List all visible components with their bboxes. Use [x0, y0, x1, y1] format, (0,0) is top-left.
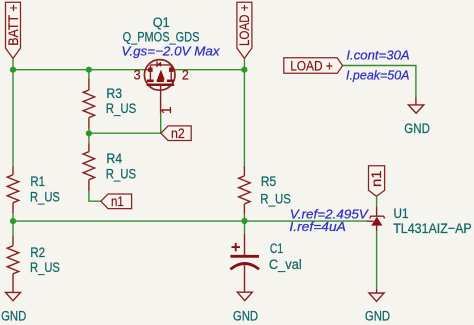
- capacitor C1: [230, 221, 259, 293]
- svg-text:1: 1: [159, 106, 175, 114]
- svg-text:3: 3: [134, 68, 141, 84]
- svg-text:R4: R4: [106, 151, 122, 167]
- net label n2: [161, 126, 191, 142]
- svg-text:n1: n1: [369, 170, 385, 187]
- junction at BATT rail: [10, 67, 16, 73]
- svg-text:GND: GND: [1, 309, 26, 325]
- svg-text:R3: R3: [106, 86, 122, 102]
- svg-text:R1: R1: [30, 174, 45, 190]
- svg-text:R2: R2: [30, 245, 45, 261]
- svg-text:R_US: R_US: [30, 190, 60, 206]
- resistor R1: [7, 166, 19, 236]
- R2 labels: [30, 245, 60, 276]
- global label BATT+: [6, 2, 22, 58]
- reference Q1: [153, 15, 170, 31]
- svg-text:TL431AIZ−AP: TL431AIZ−AP: [393, 221, 472, 237]
- junction at C1: [241, 218, 247, 224]
- U1 labels: [393, 206, 472, 237]
- ground top right: [404, 97, 430, 137]
- R3 labels: [106, 86, 137, 117]
- svg-text:BATT +: BATT +: [6, 4, 22, 46]
- global label LOAD+ (top): [237, 2, 253, 58]
- wire R4 to n1: [89, 191, 101, 201]
- svg-text:R_US: R_US: [106, 101, 137, 117]
- svg-text:LOAD +: LOAD +: [290, 58, 333, 74]
- junction at R3 top: [86, 67, 92, 73]
- wire top rail: [13, 58, 244, 166]
- svg-text:I.peak=50A: I.peak=50A: [346, 67, 410, 82]
- resistor R4: [83, 133, 95, 191]
- svg-text:GND: GND: [365, 309, 390, 325]
- field V.ref: [290, 207, 369, 222]
- svg-text:I.cont=30A: I.cont=30A: [346, 47, 410, 62]
- junction at R3/R4: [86, 130, 92, 136]
- resistor R3: [83, 70, 95, 134]
- global label LOAD+ (right): [284, 58, 343, 75]
- svg-text:LOAD +: LOAD +: [237, 5, 253, 47]
- net label n1 (vertical): [369, 166, 386, 197]
- field I.peak: [346, 67, 410, 82]
- svg-text:n1: n1: [111, 194, 124, 210]
- pin number 1: [159, 106, 175, 114]
- svg-text:V.gs=−2.0V Max: V.gs=−2.0V Max: [121, 44, 220, 59]
- svg-text:2: 2: [182, 68, 189, 84]
- junction bottom left: [10, 218, 16, 224]
- junction at LOAD rail: [241, 67, 247, 73]
- svg-text:R5: R5: [261, 174, 276, 190]
- field I.cont: [346, 47, 410, 62]
- wire bottom rail: [13, 220, 367, 222]
- field V.gs: [121, 44, 220, 59]
- svg-text:GND: GND: [233, 309, 258, 325]
- wire U1 to gnd: [376, 231, 378, 289]
- ground left: [1, 292, 26, 324]
- field I.ref: [289, 219, 346, 234]
- R4 labels: [106, 151, 136, 183]
- svg-text:R_US: R_US: [260, 191, 291, 207]
- svg-text:C_val: C_val: [269, 257, 302, 273]
- resistor R2: [7, 236, 19, 293]
- wire LOAD right to gnd: [343, 66, 416, 97]
- svg-text:I.ref=4uA: I.ref=4uA: [289, 219, 346, 234]
- wire gate to n2: [89, 114, 161, 133]
- svg-text:GND: GND: [404, 121, 430, 137]
- R5 labels: [260, 174, 291, 207]
- pin number 2: [182, 68, 189, 84]
- ground middle: [233, 292, 258, 324]
- C1 labels: [269, 241, 302, 273]
- shunt regulator U1: [367, 207, 385, 232]
- wire n1 to U1: [376, 196, 378, 206]
- svg-text:n2: n2: [171, 126, 185, 142]
- resistor R5: [239, 166, 251, 221]
- svg-text:R_US: R_US: [30, 260, 60, 276]
- transistor Q1: [144, 60, 175, 114]
- svg-text:U1: U1: [394, 206, 409, 222]
- ground right: [365, 289, 390, 325]
- net label n1: [101, 194, 132, 210]
- pin number 3: [134, 68, 141, 84]
- R1 labels: [30, 174, 60, 206]
- svg-text:C1: C1: [270, 241, 283, 257]
- svg-text:R_US: R_US: [106, 166, 136, 182]
- value Q_PMOS_GDS: [123, 29, 200, 45]
